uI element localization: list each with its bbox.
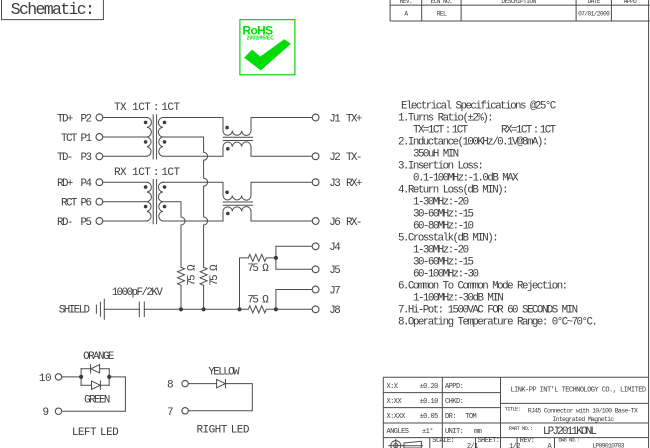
svg-text:1/2: 1/2 xyxy=(509,443,520,448)
junction node branch to R3 xyxy=(237,307,241,311)
svg-text:ANGLES: ANGLES xyxy=(387,428,409,436)
svg-text:X:X: X:X xyxy=(387,383,399,391)
svg-text:P6: P6 xyxy=(81,198,92,210)
svg-text:2/1: 2/1 xyxy=(467,443,478,448)
svg-text:LEFTLED: LEFTLED xyxy=(72,427,119,439)
svg-text:X:XX: X:XX xyxy=(387,398,403,406)
pin 7 xyxy=(182,408,188,414)
svg-text:P2: P2 xyxy=(81,113,92,125)
svg-text:TOM: TOM xyxy=(465,413,476,421)
svg-text:J6: J6 xyxy=(329,217,340,229)
svg-text:RJ45 Connector with 10/100 Bas: RJ45 Connector with 10/100 Base-TX xyxy=(528,407,638,414)
drawing frame right border xyxy=(648,0,650,448)
node LED left xyxy=(79,375,83,379)
pin J3 xyxy=(312,179,319,186)
wire LED pair to pin9 xyxy=(62,377,126,411)
svg-text:9: 9 xyxy=(42,407,48,419)
choke L2 top winding xyxy=(223,182,312,200)
svg-text:GREEN: GREEN xyxy=(84,395,110,407)
wire RD+ P4 to transformer T2 xyxy=(103,181,147,183)
pin J6 xyxy=(312,218,319,225)
svg-text:P1: P1 xyxy=(81,133,92,145)
L2 polarity dots xyxy=(225,191,229,195)
svg-text:75 Ω: 75 Ω xyxy=(187,264,199,286)
wire RD- P5 xyxy=(103,220,147,222)
svg-text:J3: J3 xyxy=(329,178,340,190)
svg-text:30-60MHz:-15: 30-60MHz:-15 xyxy=(413,256,474,268)
resistor R3 75ohm horizontal xyxy=(248,254,276,261)
svg-text:RX-: RX- xyxy=(346,217,361,229)
choke L2 core xyxy=(223,202,252,205)
pin J5 xyxy=(312,266,319,273)
pin P1 xyxy=(96,134,103,141)
wire branch up to resistor R3 xyxy=(240,258,249,309)
choke L2 bottom winding + wire to J6 xyxy=(163,207,312,221)
pin J2 xyxy=(312,153,319,160)
svg-text:5.Crosstalk(dB MIN):: 5.Crosstalk(dB MIN): xyxy=(398,232,497,244)
resistor R2 75ohm vertical xyxy=(200,267,207,309)
svg-text:±0.20: ±0.20 xyxy=(420,383,439,391)
wire pin10 to LED pair xyxy=(62,376,81,378)
svg-text:75 Ω: 75 Ω xyxy=(209,264,221,286)
svg-text:DWG NO.:: DWG NO.: xyxy=(558,436,579,443)
svg-text:7.Hi-Pot: 1500VAC FOR 60 SECON: 7.Hi-Pot: 1500VAC FOR 60 SECONDS MIN xyxy=(398,304,578,316)
pin J8 xyxy=(312,306,319,313)
svg-text:RD-: RD- xyxy=(57,217,72,229)
wire T1 secondary center tap down to R2 with hops xyxy=(163,137,208,267)
svg-text:J8: J8 xyxy=(329,305,340,317)
svg-text:60-80MHz:-10: 60-80MHz:-10 xyxy=(413,220,474,232)
svg-text:TX=1CT:1CT: TX=1CT:1CT xyxy=(413,124,469,136)
svg-text:TD+: TD+ xyxy=(57,113,73,125)
title block borders xyxy=(383,377,648,448)
shield bus wire with resistor R4 to J8 xyxy=(144,306,312,313)
svg-text:±0.05: ±0.05 xyxy=(420,413,439,421)
svg-text:2002/95/EC: 2002/95/EC xyxy=(247,35,275,41)
svg-text:SHEET:: SHEET: xyxy=(478,437,500,445)
svg-text:PART NO.:: PART NO.: xyxy=(509,425,532,432)
svg-text:0.1-100MHz:-1.0dB MAX: 0.1-100MHz:-1.0dB MAX xyxy=(413,172,519,184)
svg-text:1-30MHz:-20: 1-30MHz:-20 xyxy=(413,244,469,256)
svg-text:1000pF/2KV: 1000pF/2KV xyxy=(112,287,164,299)
transformer T1 TX primary winding xyxy=(147,118,151,157)
revision table xyxy=(390,0,650,21)
svg-text:8.Operating Temperature Range:: 8.Operating Temperature Range: 0°C~70°C. xyxy=(398,316,596,328)
svg-text:ORANGE: ORANGE xyxy=(83,351,114,363)
wire TD- P3 xyxy=(103,155,147,157)
junction node R1 bottom xyxy=(179,307,183,311)
svg-text:Integrated Magnetic: Integrated Magnetic xyxy=(552,416,614,423)
svg-text:UNIT:: UNIT: xyxy=(445,428,463,436)
svg-text:REV.: REV. xyxy=(400,0,412,5)
junction node J7/J8 xyxy=(274,307,278,311)
T2 polarity dots xyxy=(144,185,148,189)
svg-text:YELLOW: YELLOW xyxy=(208,366,240,378)
svg-text:mm: mm xyxy=(474,428,482,436)
LED pair branch rails xyxy=(81,369,109,385)
pin P4 xyxy=(96,179,103,186)
pin P6 xyxy=(96,198,103,205)
svg-text:TX+: TX+ xyxy=(346,113,362,125)
wire TCT P1 xyxy=(103,136,147,138)
svg-text:P4: P4 xyxy=(81,178,92,190)
svg-text:75 Ω: 75 Ω xyxy=(247,294,269,306)
svg-text:07/01/2009: 07/01/2009 xyxy=(578,11,610,18)
svg-text:J5: J5 xyxy=(329,265,340,277)
svg-text:TX-: TX- xyxy=(346,152,361,164)
svg-text:6.Common To Common Mode Reject: 6.Common To Common Mode Rejection: xyxy=(398,280,567,292)
svg-text:60-100MHz:-30: 60-100MHz:-30 xyxy=(413,268,479,280)
LED D3 yellow xyxy=(217,379,226,387)
svg-text:RX=1CT:1CT: RX=1CT:1CT xyxy=(501,124,557,136)
svg-text:P3: P3 xyxy=(81,152,92,164)
svg-text:DESCRIPTION: DESCRIPTION xyxy=(501,0,536,5)
choke L1 top winding xyxy=(223,118,312,136)
svg-text:APPD:: APPD: xyxy=(445,383,463,391)
LED junction dots xyxy=(79,375,111,379)
svg-text:Schematic:: Schematic: xyxy=(11,0,94,19)
node LED right xyxy=(107,375,111,379)
svg-text:Electrical Specifications @25°: Electrical Specifications @25°C xyxy=(401,100,557,112)
svg-text:RCT: RCT xyxy=(61,198,78,210)
resistor R1 75ohm vertical xyxy=(178,267,185,309)
svg-text:1-100MHz:-30dB MIN: 1-100MHz:-30dB MIN xyxy=(413,292,503,304)
svg-text:ECN NO.: ECN NO. xyxy=(431,0,453,5)
svg-text:75 Ω: 75 Ω xyxy=(247,263,269,275)
pin P5 xyxy=(96,218,103,225)
LED D1 orange (points left) xyxy=(81,365,109,373)
transformer T1 core xyxy=(153,115,156,159)
pin 9 xyxy=(55,408,61,414)
shield terminal symbol xyxy=(96,299,104,319)
svg-text:REV:: REV: xyxy=(520,437,535,445)
svg-text:TD-: TD- xyxy=(57,152,72,164)
transformer T1 TX secondary winding xyxy=(158,118,162,157)
svg-text:±0.10: ±0.10 xyxy=(420,398,439,406)
wire to J4 and J5 xyxy=(276,246,312,269)
wire RCT P6 xyxy=(103,201,147,203)
svg-text:P5: P5 xyxy=(81,217,92,229)
svg-text:REL: REL xyxy=(437,11,447,18)
wire TD+ P2 to transformer T1 primary xyxy=(103,117,147,119)
svg-text:±1°: ±1° xyxy=(422,427,433,436)
svg-text:RX 1CT:1CT: RX 1CT:1CT xyxy=(114,167,180,179)
svg-text:TITLE:: TITLE: xyxy=(505,406,521,413)
svg-text:2.Inductance(100KHz/0.1V@8mA):: 2.Inductance(100KHz/0.1V@8mA): xyxy=(398,136,547,148)
wire LED D3 to pin7 xyxy=(188,384,252,411)
svg-text:1.Turns Ratio(±2%):: 1.Turns Ratio(±2%): xyxy=(398,112,492,124)
pin P2 xyxy=(96,114,103,121)
svg-text:LP09010703: LP09010703 xyxy=(592,442,624,448)
transformer T2 RX primary winding xyxy=(147,182,151,221)
wire shield to capacitor C1 xyxy=(104,308,139,310)
pin 8 xyxy=(182,380,188,386)
transformer T2 core xyxy=(153,180,156,224)
choke L1 core xyxy=(223,137,252,140)
pin P3 xyxy=(96,153,103,160)
svg-text:4.Return Loss(dB MIN):: 4.Return Loss(dB MIN): xyxy=(398,184,507,196)
wire T2 secondary center tap down to R1 with hop xyxy=(163,202,185,268)
T1 polarity dots xyxy=(144,121,148,125)
svg-text:1-30MHz:-20: 1-30MHz:-20 xyxy=(413,196,469,208)
svg-text:TCT: TCT xyxy=(61,133,78,145)
svg-text:J1: J1 xyxy=(329,113,340,125)
svg-text:30-60MHz:-15: 30-60MHz:-15 xyxy=(413,208,474,220)
svg-text:SCALE:: SCALE: xyxy=(432,437,454,445)
svg-text:APPD: APPD xyxy=(624,0,637,5)
svg-text:LINK-PP INT’L TECHNOLOGY CO.,: LINK-PP INT’L TECHNOLOGY CO., LIMITED xyxy=(510,387,645,395)
svg-text:DATE: DATE xyxy=(587,0,600,5)
svg-text:J2: J2 xyxy=(329,152,340,164)
pin J1 xyxy=(312,114,319,121)
wire T2 secondary top to choke L2 and out to J3 xyxy=(163,182,223,195)
junction node J4/J5 xyxy=(274,256,278,260)
wire T1 secondary top to choke L1 and out to J1 xyxy=(163,118,223,131)
svg-text:DR:: DR: xyxy=(445,413,456,421)
capacitor C1 1000pF/2KV xyxy=(139,302,144,317)
junction node R2 bottom xyxy=(202,307,206,311)
svg-text:CHKD:: CHKD: xyxy=(445,398,463,406)
svg-text:10: 10 xyxy=(39,373,51,385)
svg-text:3.Insertion Loss:: 3.Insertion Loss: xyxy=(398,160,482,172)
svg-text:7: 7 xyxy=(167,407,173,419)
svg-text:X:XXX: X:XXX xyxy=(387,413,407,421)
transformer T2 RX secondary winding xyxy=(158,182,162,221)
svg-text:J7: J7 xyxy=(329,285,340,297)
pin 10 xyxy=(55,374,61,380)
svg-text:J4: J4 xyxy=(329,242,340,254)
svg-text:TX 1CT:1CT: TX 1CT:1CT xyxy=(114,102,180,114)
wire pin8 to LED D3 xyxy=(188,383,216,385)
choke L1 bottom winding + wire to J2 xyxy=(163,142,312,156)
svg-text:RX+: RX+ xyxy=(346,178,362,190)
LED D2 green (points right) xyxy=(81,381,109,389)
wire to J7 xyxy=(276,290,312,310)
svg-text:RD+: RD+ xyxy=(57,178,73,190)
svg-text:8: 8 xyxy=(167,380,173,392)
svg-text:350uH MIN: 350uH MIN xyxy=(413,148,459,160)
pin J4 xyxy=(312,243,319,250)
svg-text:SHIELD: SHIELD xyxy=(59,305,90,317)
svg-text:RIGHTLED: RIGHTLED xyxy=(196,425,249,437)
pin J7 xyxy=(312,286,319,293)
schematic title box xyxy=(2,0,104,20)
L1 polarity dots xyxy=(225,126,229,130)
